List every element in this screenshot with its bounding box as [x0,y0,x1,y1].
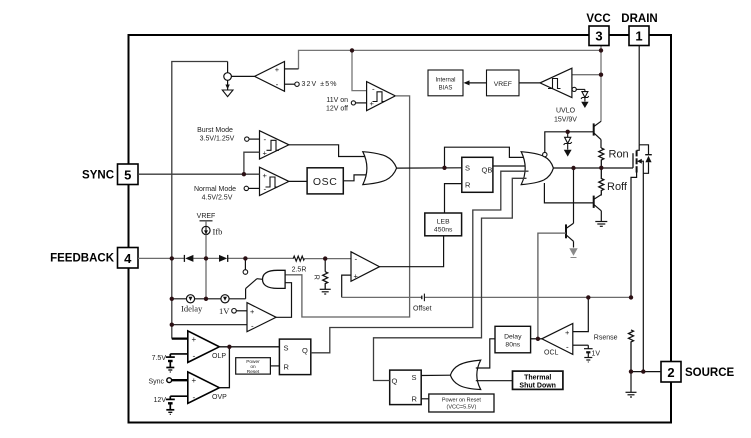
AND gate (mirrored, output left) [263,270,286,288]
svg-text:7.5V: 7.5V [152,355,167,362]
svg-text:Power on Reset: Power on Reset [442,398,482,404]
svg-text:OCL: OCL [544,350,559,357]
svg-text:11V on: 11V on [326,97,348,104]
svg-text:OVP: OVP [212,394,227,401]
svg-text:Idelay: Idelay [181,304,203,314]
svg-text:+: + [275,65,280,74]
svg-text:-: - [372,85,375,94]
comparator UVLO (points left) [540,68,572,97]
transistor Q-bot (pull-down NPN) [594,195,602,222]
latch U-PWM S/R/QB [462,157,493,192]
current source Ifb [205,221,207,227]
wire OCL + input from sense node [573,297,589,331]
svg-text:Delay: Delay [504,334,522,341]
svg-text:-: - [264,184,267,193]
resistor R to ground [324,259,326,272]
OSC box [307,168,343,194]
wire OR out to latch S with junction [397,167,462,169]
svg-text:FEEDBACK: FEEDBACK [50,253,115,265]
svg-text:BIAS: BIAS [439,86,453,92]
svg-text:R: R [312,275,319,280]
svg-text:Ifb: Ifb [213,227,223,237]
svg-text:S: S [465,163,470,172]
zener diode (gate clamp) [564,132,572,150]
pin FEEDBACK 4 [50,248,138,269]
node 32V ±5% [295,82,299,86]
wire VREF to BIAS arrow [465,82,487,84]
svg-text:+: + [565,328,570,337]
transistor Q-top (pull-up NPN) [594,121,601,148]
svg-text:Q: Q [392,377,398,386]
node Sync input [167,378,172,383]
wire latch2 Q route to driver OR input4 [374,178,527,380]
svg-text:+: + [250,307,255,316]
svg-text:Reset: Reset [247,369,260,375]
svg-text:+: + [370,99,375,108]
latch U-OLP S/R/Q [279,339,310,375]
svg-text:1: 1 [635,29,642,44]
resistor Ron [599,148,604,168]
ground (R) [320,289,331,294]
svg-text:+: + [192,376,197,385]
diode D2 (points right) [219,255,227,262]
switch (feedback disconnect) [244,258,246,269]
wire POR to latch R [270,365,279,367]
wire gate node line OR tip to MOSFET gate [553,167,633,169]
resistor Roff [599,168,604,196]
wire 11/12V comparator output to AND upper input [285,96,410,317]
wire thermal OR top input from Delay [476,339,495,368]
svg-text:Thermal: Thermal [524,375,551,382]
wire Delay to OCL output node [531,338,542,340]
svg-text:Burst Mode: Burst Mode [197,127,233,134]
wire left rail from 32V comparator source down [172,62,228,259]
svg-text:3: 3 [595,29,602,44]
wire Q3 base from OCL output [538,233,566,339]
wire latch2 S from thermal OR [421,374,450,376]
svg-text:+: + [354,272,359,281]
ground (driver emitter) [595,222,607,227]
svg-text:QB: QB [482,166,493,175]
svg-text:Q: Q [302,346,308,355]
svg-text:Shut Down: Shut Down [519,382,556,389]
latch U-THERM Q/S/R (mirrored) [390,370,422,405]
svg-text:32V ±5%: 32V ±5% [302,81,338,88]
VREF box [487,70,520,96]
wire burst output to OR [289,145,368,157]
svg-text:2: 2 [667,365,674,380]
zener (UVLO reference) [572,87,576,91]
svg-text:4: 4 [124,251,132,266]
op-amp PWM comparator [342,252,380,298]
svg-text:-: - [355,255,358,264]
OR gate (OSC/burst) [363,152,397,185]
svg-text:1V: 1V [592,351,601,358]
svg-text:-: - [193,351,196,361]
wire burst + input [244,152,260,174]
wire rail to OLP [171,258,173,338]
wire bubble to upper driver base with zener tap [545,132,594,153]
current source I 32V comparator [224,62,232,90]
comparator Burst Mode [249,131,289,159]
wire S-route to driver OR top input [445,147,527,168]
svg-text:VREF: VREF [494,81,512,88]
svg-text:SYNC: SYNC [82,170,114,182]
svg-text:-: - [264,135,267,144]
Power on Reset (VCC=5.5V) box [429,394,494,412]
wire SYNC line [138,173,260,175]
svg-text:OSC: OSC [313,176,338,188]
OR gate thermal (mirrored, output left) [450,360,480,389]
svg-text:1V: 1V [219,306,230,316]
Thermal Shut Down box [513,371,563,389]
ground (32V comparator source) [222,90,233,97]
svg-text:SOURCE: SOURCE [685,367,735,379]
svg-text:Offset: Offset [413,305,432,312]
svg-text:R: R [412,395,418,404]
wire OLP/OVP outputs to latch S [219,346,279,348]
svg-text:S: S [284,343,289,352]
wire AND lower input from 1V comparator [276,283,291,318]
svg-text:15V/9V: 15V/9V [554,117,577,124]
svg-text:R: R [284,362,290,371]
ground (source) [630,372,632,393]
svg-text:5: 5 [124,168,131,183]
svg-text:-: - [276,80,279,89]
svg-text:OLP: OLP [212,353,226,360]
Delay 80ns box [495,326,531,353]
wire latch1 Q route to driver OR input3 [311,171,529,353]
svg-text:+: + [263,149,268,158]
wire driver OR bottom output to lower base [544,183,593,203]
battery Offset [421,296,423,300]
resistor 2.5R [293,256,304,261]
comparator OCL (points left) [542,324,573,355]
svg-text:Normal Mode: Normal Mode [194,186,236,193]
wire FEEDBACK line [138,257,351,259]
diode D1 (points left) [185,255,193,262]
comparator OLP [170,331,219,363]
svg-text:Internal: Internal [435,78,455,84]
svg-text:3.5V/1.25V: 3.5V/1.25V [200,135,235,142]
wire Ifb to feedback node and down to Idelay line [205,235,207,259]
wire normal output to OSC [289,180,307,182]
svg-text:80ns: 80ns [505,342,520,349]
Power on Reset box (OLP latch) [236,358,271,374]
Internal BIAS box [428,70,463,96]
svg-text:450ns: 450ns [434,226,453,233]
OR gate driver [521,152,553,185]
LEB 450ns box [425,213,462,236]
wire latch R from LEB [445,184,462,213]
body diode [639,145,652,174]
svg-text:-: - [193,392,196,402]
wire OSC output [343,175,368,181]
svg-text:DRAIN: DRAIN [621,13,657,25]
wire drain from pin 1 [638,46,640,145]
svg-text:R: R [465,180,471,189]
svg-text:12V: 12V [154,397,167,404]
bubble on driver OR top [543,152,547,156]
svg-text:Rsense: Rsense [594,334,618,341]
svg-text:UVLO: UVLO [556,108,576,115]
battery 7.5V [166,354,175,372]
svg-text:+: + [192,335,197,344]
ground (Q3 emitter, gray arrow) [569,248,577,256]
comparator 11V on/12V off [356,82,396,111]
svg-text:Ron: Ron [609,149,629,161]
wire LEB bottom to PWM comparator output [380,236,444,267]
wire latch QB to driver OR [493,165,529,167]
svg-text:Sync: Sync [148,378,164,385]
pin DRAIN 1 [621,13,657,46]
border frame [129,35,672,423]
svg-text:LEB: LEB [437,218,450,225]
op-amp 32V comparator [231,62,298,92]
svg-text:2.5R: 2.5R [292,267,307,274]
comparator 1V (delay) [172,303,276,332]
wire thermal OR bottom input from Thermal Shut Down [476,380,513,382]
pin VCC 3 [586,13,610,46]
svg-text:-: - [566,343,569,352]
svg-text:VCC: VCC [586,13,610,25]
transistor Q3 (gate pull-down NPN) [566,168,574,248]
current sources Idelay [172,298,246,300]
pin SYNC 5 [82,164,138,185]
comparator Normal Mode [249,167,289,195]
battery 1V (OCL) [573,344,589,346]
svg-text:4.5V/2.5V: 4.5V/2.5V [202,195,233,202]
wire latch2 R from POR2 [421,398,429,400]
svg-text:(VCC=5.5V): (VCC=5.5V) [446,405,476,411]
battery 12V [166,396,175,414]
MOSFET power switch [631,150,643,371]
svg-text:VREF: VREF [197,213,216,220]
wire offset line (sense) [342,296,631,298]
svg-text:12V off: 12V off [326,105,348,112]
pin SOURCE 2 [661,362,735,383]
wire source pin line [631,371,661,373]
svg-text:-: - [251,322,254,331]
svg-text:S: S [412,373,417,382]
svg-text:+: + [263,171,268,180]
wire VCC top net [299,46,602,122]
svg-text:Roff: Roff [607,181,628,193]
comparator OVP [170,372,219,403]
